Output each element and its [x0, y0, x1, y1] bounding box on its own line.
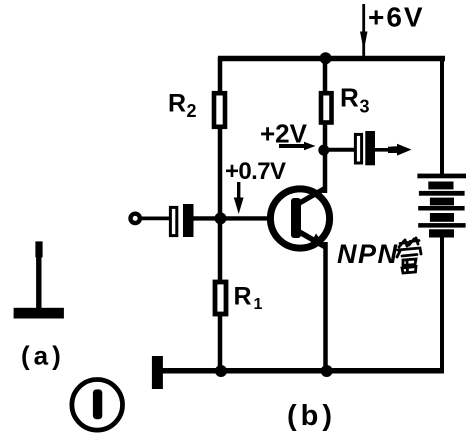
svg-text:+6V: +6V	[368, 2, 425, 33]
wire capacitor to base node	[193, 216, 294, 220]
hand-drawn 管 character	[397, 238, 421, 273]
transistor Q1 emitter arrowhead	[310, 234, 326, 248]
arrow under +0.7V	[234, 182, 244, 214]
battery short plate 1	[428, 182, 453, 190]
node +2V junction	[318, 145, 329, 156]
label R2	[168, 90, 197, 122]
battery short plate 3	[430, 213, 454, 222]
battery long plate 3	[418, 206, 464, 211]
capacitor C2 output plate 1	[355, 134, 361, 163]
transistor Q1 emitter lead	[296, 230, 326, 247]
circled bar marker	[72, 380, 123, 431]
svg-text:NPN: NPN	[337, 239, 399, 269]
node bottom junction left (R1)	[215, 365, 227, 377]
battery short plate 2	[430, 198, 454, 206]
wire input terminal to capacitor	[141, 216, 170, 220]
output arrow	[375, 144, 412, 156]
transistor Q1 circle	[270, 189, 329, 248]
wire right branch lower (emitter side)	[323, 242, 328, 371]
figure (a) electrode symbol stem	[36, 242, 41, 310]
node base junction	[215, 212, 227, 224]
node bottom junction right (emitter)	[321, 365, 333, 377]
wire bottom rail	[153, 368, 444, 374]
svg-text:(b): (b)	[287, 400, 336, 432]
wire top rail	[218, 56, 445, 62]
svg-text:+0.7V: +0.7V	[225, 158, 286, 185]
resistor R1	[215, 282, 226, 314]
bottom-left terminator bar	[152, 356, 163, 389]
battery B1	[417, 174, 466, 238]
svg-text:3: 3	[360, 97, 370, 117]
label NPN管	[337, 238, 421, 273]
+6V supply lead with arrow	[360, 4, 368, 57]
svg-text:R: R	[340, 83, 359, 113]
battery long plate 4	[418, 223, 465, 228]
svg-text:(a): (a)	[21, 341, 65, 371]
figure (a) electrode symbol bar	[14, 308, 64, 319]
capacitor C1 input plate 2	[183, 204, 194, 237]
wire battery branch vertical lower	[440, 235, 444, 371]
capacitor C1 input plate 1	[170, 207, 176, 235]
wire right branch upper (collector side)	[323, 57, 328, 193]
transistor Q1 collector lead	[297, 188, 326, 205]
svg-text:1: 1	[254, 296, 263, 313]
battery long plate 1	[417, 174, 466, 179]
capacitor C2 output plate 2	[365, 131, 375, 165]
node top junction	[320, 52, 332, 64]
transistor Q1 base bar	[291, 198, 301, 238]
svg-text:2: 2	[187, 101, 197, 121]
arrow under +2V	[279, 142, 316, 150]
battery short plate 4	[429, 229, 454, 237]
resistor R2	[214, 93, 225, 127]
label R1	[234, 283, 263, 314]
wire left branch vertical	[218, 57, 223, 371]
input terminal circle	[131, 214, 140, 223]
battery long plate 2	[419, 191, 465, 196]
resistor R3	[321, 93, 332, 122]
svg-text:R: R	[168, 90, 186, 118]
wire output node to capacitor	[328, 148, 355, 152]
label R3	[340, 83, 370, 117]
wire battery branch vertical upper	[440, 57, 444, 176]
svg-text:R: R	[234, 283, 252, 311]
